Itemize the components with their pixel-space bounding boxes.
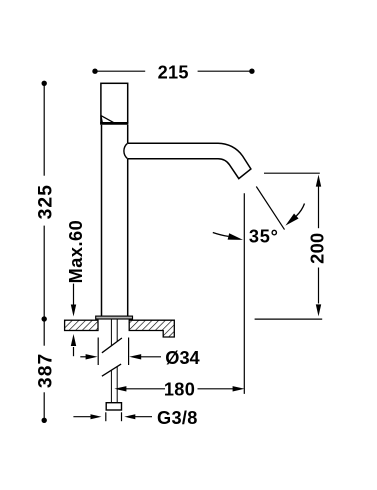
spout tube xyxy=(128,143,251,178)
dimension 325 (left upper height) xyxy=(42,81,47,322)
dimension 215 (top width) xyxy=(92,69,254,74)
dimension 387 (left total height) xyxy=(42,319,47,423)
dimension 200 top reference line (outlet level) xyxy=(264,172,320,174)
dimension G3/8 left arrow xyxy=(73,414,101,419)
water stream vertical reference line xyxy=(243,193,245,394)
svg-text:325: 325 xyxy=(35,184,56,219)
curved arrow to angled line xyxy=(285,204,304,226)
spout rounded cap xyxy=(124,143,128,159)
svg-text:Max.60: Max.60 xyxy=(66,220,86,284)
svg-text:G3/8: G3/8 xyxy=(157,408,198,428)
dimension 200 bottom reference line (deck level) xyxy=(255,318,323,320)
faucet handle xyxy=(101,83,128,123)
supply rod upper segment xyxy=(111,319,117,345)
deck right section with step (hatched) xyxy=(129,320,174,337)
dimension Ø34 left arrow xyxy=(80,354,97,359)
dimension 200 line with arrows xyxy=(316,175,321,317)
handle/body junction thick line xyxy=(100,122,128,125)
rod break slash upper xyxy=(102,338,122,353)
svg-text:Ø34: Ø34 xyxy=(165,348,200,368)
G3/8 extension ticks xyxy=(106,412,122,421)
svg-text:200: 200 xyxy=(308,233,328,264)
dimension 180 left arrow (at rod centre) xyxy=(114,386,165,391)
deck left section (hatched) xyxy=(65,320,98,330)
handle lever notch xyxy=(101,116,114,123)
dimension Ø34 extension lines xyxy=(98,338,128,366)
Max.60 lower arrow (points up to deck bottom) xyxy=(71,334,76,356)
svg-text:387: 387 xyxy=(35,353,56,388)
faucet body column xyxy=(102,125,128,316)
dimension G3/8 right arrow xyxy=(124,414,152,419)
35 degree stream line xyxy=(256,187,284,230)
dimension Ø34 right arrow xyxy=(129,354,161,359)
svg-text:215: 215 xyxy=(158,63,189,83)
supply rod lower segment xyxy=(111,367,117,403)
base plate (escutcheon) xyxy=(96,316,133,319)
curved arrow to vertical line xyxy=(213,233,243,240)
svg-text:35°: 35° xyxy=(249,227,279,247)
Max.60 upper arrow (points down to deck top) xyxy=(71,284,76,317)
dimension 180 right arrow (at stream line) xyxy=(198,386,245,391)
G3/8 fitting xyxy=(106,403,121,410)
rod break slash lower xyxy=(102,364,121,376)
svg-text:180: 180 xyxy=(164,380,195,400)
